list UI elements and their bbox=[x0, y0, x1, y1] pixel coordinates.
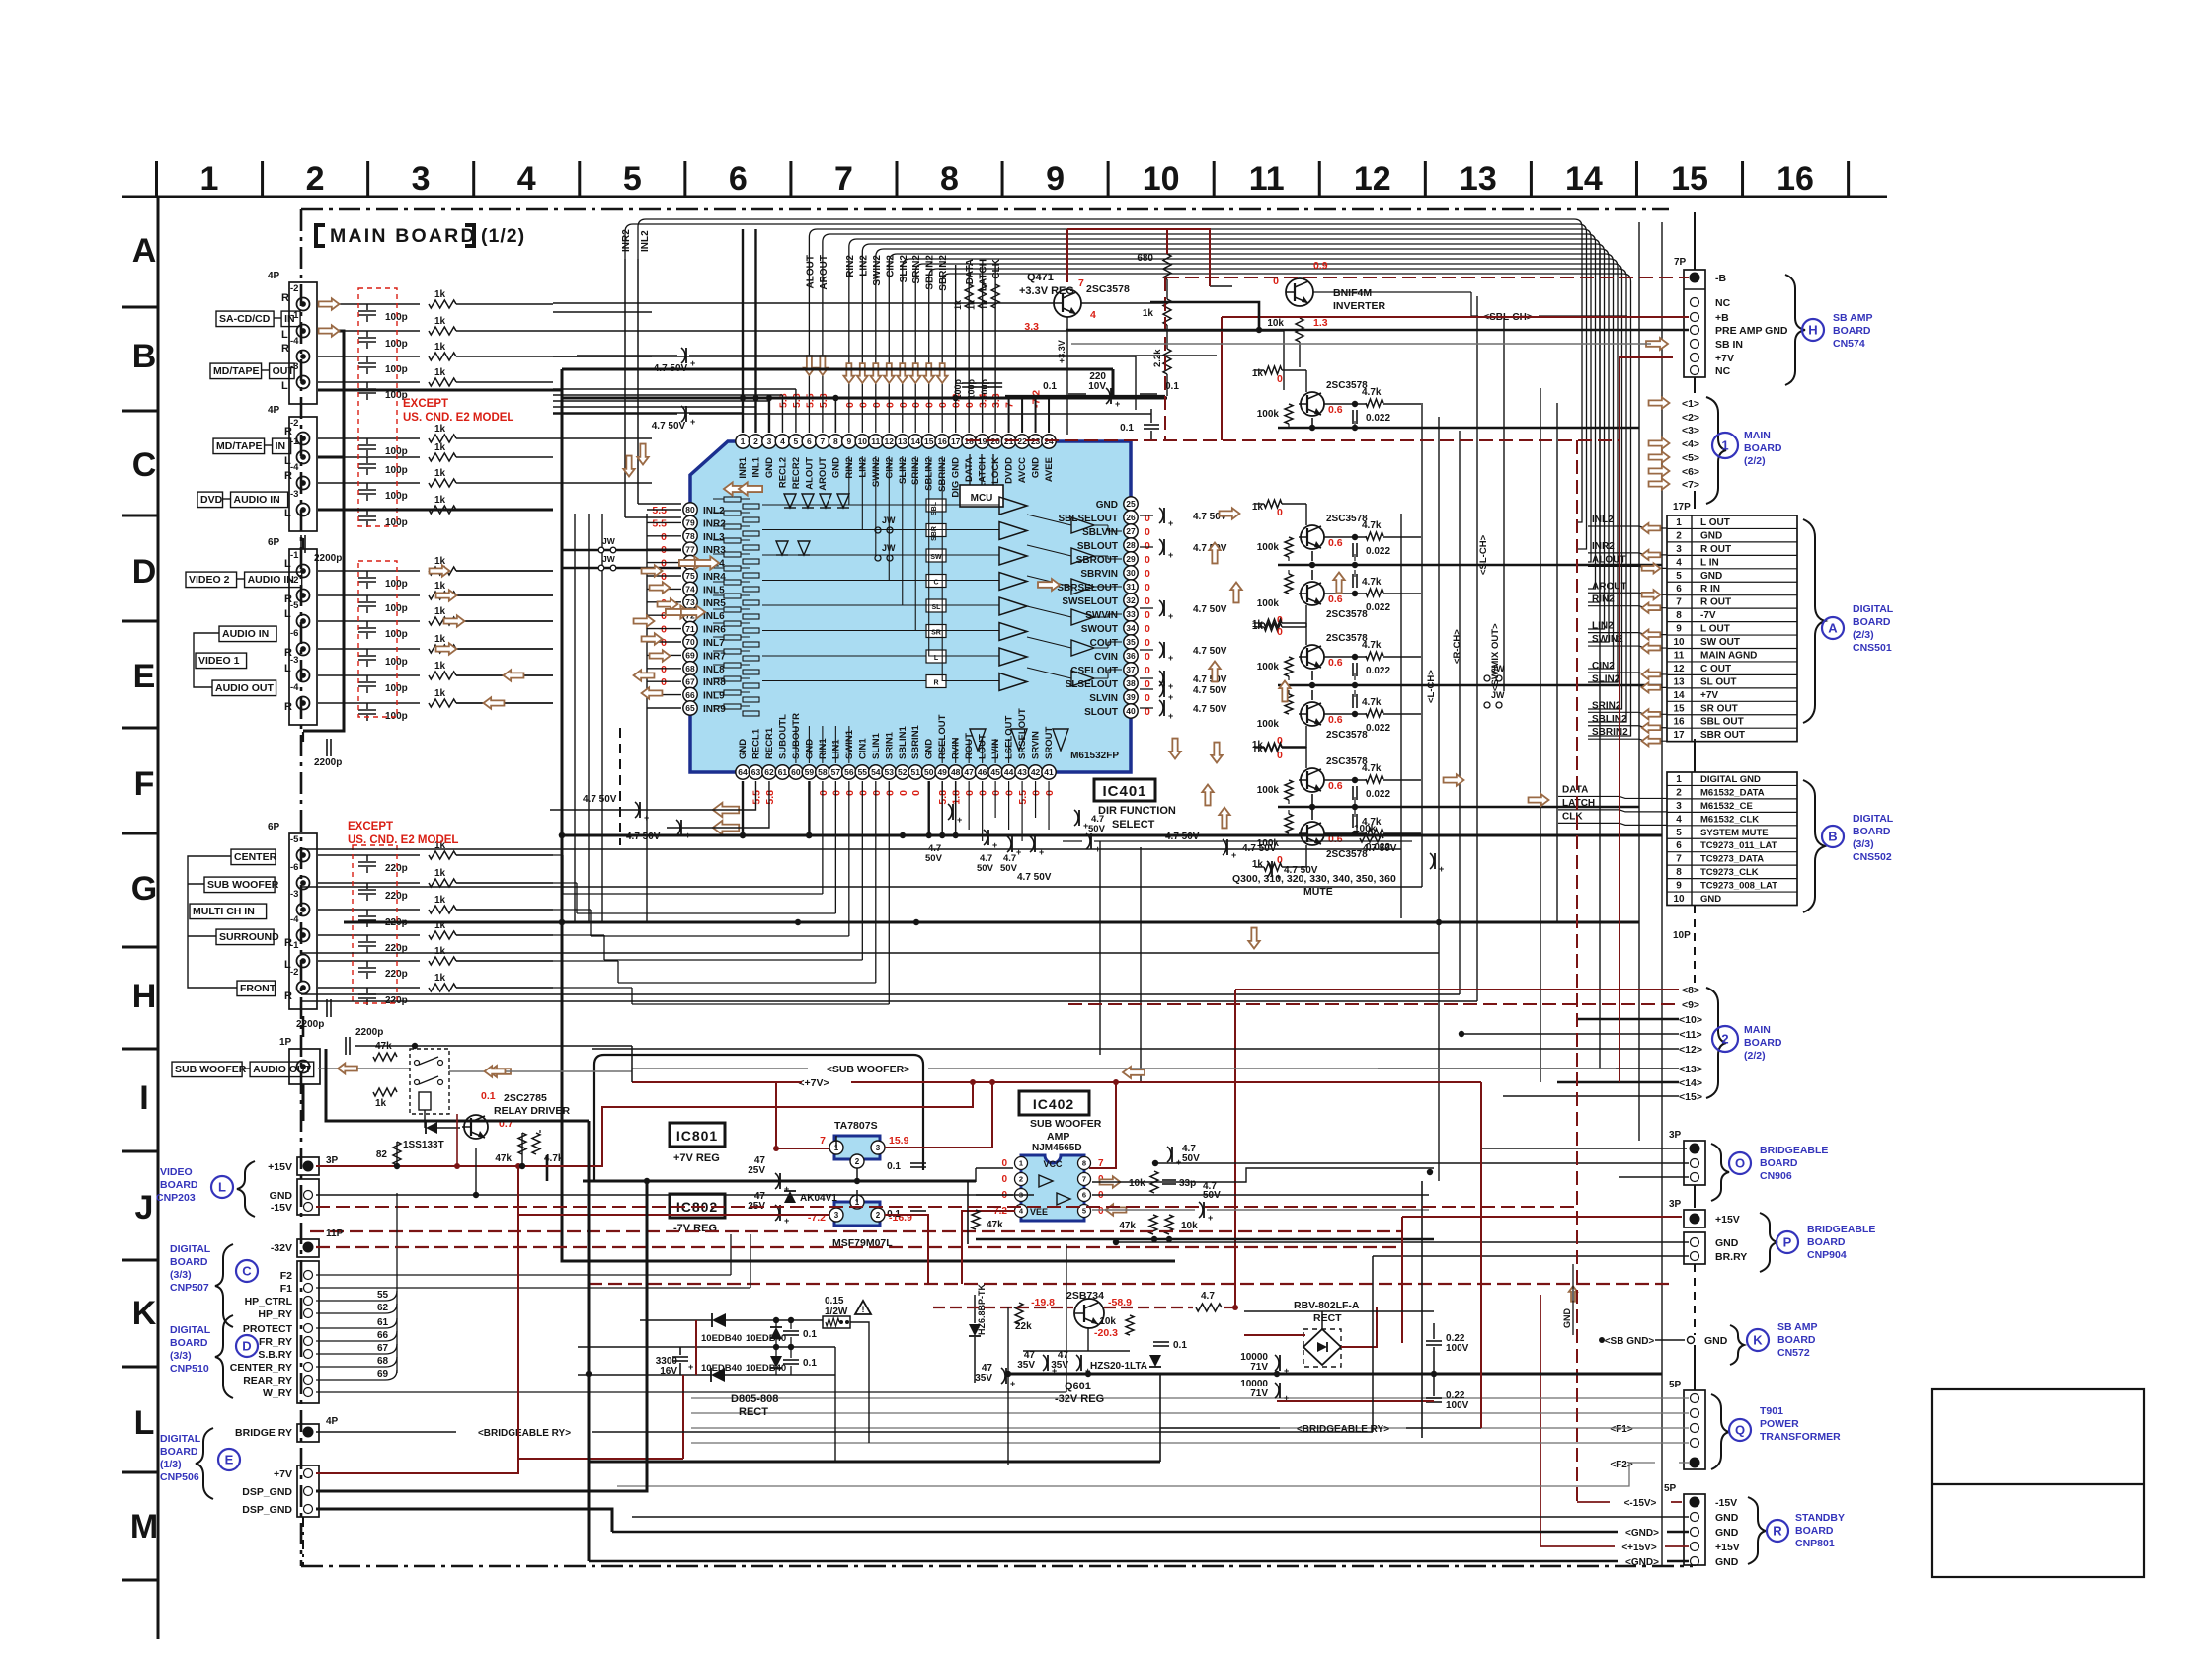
svg-text:0: 0 bbox=[1044, 790, 1056, 796]
capacitor 2200p bbox=[326, 739, 328, 756]
svg-text:100k: 100k bbox=[1257, 719, 1280, 730]
maroon -B dashed wire bbox=[1165, 277, 1689, 278]
svg-text:63: 63 bbox=[751, 767, 761, 777]
thick bus y1480 bbox=[589, 1461, 1160, 1464]
connector SUB WOOFER AUDIO OUT (1P) bbox=[289, 1049, 320, 1084]
pins 17-20 risers DATA LATCH CLK bbox=[968, 265, 970, 433]
jumper JW bbox=[875, 527, 881, 533]
pin 10 LIN2 bbox=[855, 435, 869, 448]
resistor 4.7k bbox=[1366, 775, 1383, 783]
label FRONT bbox=[237, 981, 276, 996]
resistor 1k bbox=[373, 1088, 397, 1096]
RCA jack pin bbox=[297, 615, 310, 628]
pin 31 SBRSELOUT bbox=[1124, 580, 1138, 594]
table DIGITAL BOARD (3/3) CNS502 10P bbox=[1667, 772, 1797, 906]
svg-text:100k: 100k bbox=[1257, 542, 1280, 553]
svg-text:5.8: 5.8 bbox=[764, 790, 776, 805]
svg-text:R: R bbox=[933, 680, 938, 687]
svg-text:68: 68 bbox=[685, 664, 695, 673]
svg-text:BR.RY: BR.RY bbox=[1715, 1251, 1747, 1263]
svg-text:22k: 22k bbox=[1015, 1321, 1032, 1332]
pin 38 SLSELOUT bbox=[1124, 676, 1138, 690]
svg-text:100V: 100V bbox=[1446, 1343, 1469, 1354]
svg-text:-32V: -32V bbox=[271, 1242, 292, 1254]
svg-text:5: 5 bbox=[623, 160, 642, 198]
svg-text:<SUB WOOFER>: <SUB WOOFER> bbox=[827, 1064, 910, 1075]
svg-text:12: 12 bbox=[1673, 664, 1685, 674]
svg-text:50V: 50V bbox=[1088, 824, 1106, 834]
pin 11 SWIN2 bbox=[869, 435, 883, 448]
svg-text:CSELOUT: CSELOUT bbox=[1070, 666, 1118, 676]
resistor 100k bbox=[1360, 834, 1383, 842]
capacitor 4.7 50V bbox=[681, 406, 685, 422]
svg-text:0: 0 bbox=[661, 531, 667, 543]
connector group SA-CD/CD + MD/TAPE OUT (4P) bbox=[289, 282, 317, 404]
pin 64 GND bbox=[736, 765, 750, 779]
svg-text:25V: 25V bbox=[748, 1165, 765, 1176]
svg-text:3: 3 bbox=[876, 1144, 881, 1152]
svg-text:-5: -5 bbox=[290, 834, 299, 845]
RCA jack pin bbox=[297, 955, 310, 968]
svg-text:I: I bbox=[139, 1079, 148, 1117]
svg-text:SBRIN2: SBRIN2 bbox=[1592, 727, 1628, 738]
capacitor 100p bbox=[318, 702, 420, 704]
svg-text:FR_RY: FR_RY bbox=[259, 1336, 292, 1348]
svg-text:2: 2 bbox=[306, 160, 325, 198]
svg-text:GND: GND bbox=[1704, 1335, 1728, 1347]
main board dash-dot outline bbox=[301, 208, 1669, 211]
svg-text:47k: 47k bbox=[495, 1153, 512, 1164]
svg-text:-15V: -15V bbox=[1715, 1497, 1737, 1509]
capacitor 4.7 50V bbox=[1159, 508, 1163, 523]
capacitor 0.1 bbox=[1153, 1341, 1169, 1343]
svg-text:SB AMP: SB AMP bbox=[1777, 1321, 1817, 1333]
svg-text:0: 0 bbox=[964, 790, 976, 796]
svg-text:1k: 1k bbox=[434, 316, 446, 327]
capacitor 100p bbox=[318, 356, 420, 357]
svg-text:0: 0 bbox=[871, 402, 883, 408]
capacitor 100p bbox=[962, 382, 976, 384]
svg-text:CENTER: CENTER bbox=[234, 851, 277, 863]
svg-text:16: 16 bbox=[1777, 160, 1814, 198]
resistor 100k bbox=[1285, 657, 1293, 676]
svg-text:DIR FUNCTION: DIR FUNCTION bbox=[1098, 805, 1176, 817]
svg-text:10k: 10k bbox=[1181, 1221, 1198, 1231]
svg-text:37: 37 bbox=[1126, 665, 1136, 674]
svg-text:IN: IN bbox=[276, 440, 286, 452]
svg-text:0: 0 bbox=[830, 790, 842, 796]
svg-text:CNP801: CNP801 bbox=[1795, 1538, 1835, 1549]
svg-text:F1: F1 bbox=[280, 1283, 292, 1295]
svg-text:3P: 3P bbox=[1669, 1130, 1682, 1141]
svg-text:0: 0 bbox=[1145, 540, 1150, 552]
wire net CIN2 bbox=[889, 254, 1613, 669]
pin 45 LVIN bbox=[988, 765, 1002, 779]
down arrows below IC bbox=[1169, 739, 1180, 759]
signal arrows into pins 9-16 bbox=[843, 363, 854, 383]
diode HZS20-1LTA bbox=[1149, 1355, 1161, 1367]
svg-text:71: 71 bbox=[685, 624, 695, 634]
svg-text:80: 80 bbox=[685, 505, 695, 515]
resistor 1k bbox=[429, 378, 456, 386]
svg-text:+7V: +7V bbox=[1715, 353, 1734, 364]
svg-text:+: + bbox=[1168, 653, 1173, 663]
svg-text:20: 20 bbox=[990, 436, 1000, 446]
regulator MSF79M07L bbox=[834, 1202, 880, 1226]
svg-text:24: 24 bbox=[1044, 436, 1054, 446]
svg-text:R: R bbox=[284, 647, 292, 659]
resistor 1k bbox=[429, 592, 456, 599]
svg-text:0.1: 0.1 bbox=[481, 1090, 496, 1102]
svg-text:11: 11 bbox=[1249, 160, 1285, 198]
svg-text:10: 10 bbox=[1673, 894, 1685, 905]
svg-text:R: R bbox=[284, 426, 292, 437]
capacitor 4.7 50V bbox=[1007, 836, 1011, 852]
svg-text:H: H bbox=[132, 978, 157, 1015]
svg-text:R: R bbox=[281, 292, 289, 304]
svg-text:CNP507: CNP507 bbox=[170, 1282, 209, 1294]
svg-text:+: + bbox=[1276, 872, 1281, 882]
zener HZ6.8BP-TK bbox=[969, 1324, 981, 1336]
svg-text:GND: GND bbox=[1715, 1512, 1739, 1524]
svg-text:INR7: INR7 bbox=[703, 651, 726, 662]
maroon +15V standby feed bbox=[1540, 1295, 1541, 1546]
resistor 1k base bbox=[1264, 863, 1282, 871]
SB IN wire bbox=[1071, 343, 1651, 345]
capacitor 220p bbox=[318, 960, 420, 962]
svg-text:<+7V>: <+7V> bbox=[798, 1077, 829, 1089]
capacitor 100p bbox=[318, 437, 420, 439]
svg-text:10P: 10P bbox=[1673, 930, 1691, 941]
svg-text:62: 62 bbox=[764, 767, 774, 777]
svg-text:1: 1 bbox=[1676, 517, 1682, 528]
resistor 1k base bbox=[1264, 366, 1282, 374]
RCA jack pin bbox=[297, 351, 310, 363]
svg-text:0: 0 bbox=[1001, 1174, 1007, 1185]
svg-text:INR8: INR8 bbox=[703, 677, 726, 688]
wire loop relay to IC402 bbox=[594, 1055, 923, 1181]
svg-text:3: 3 bbox=[1676, 544, 1682, 555]
svg-text:D: D bbox=[242, 1339, 251, 1354]
svg-text:BOARD: BOARD bbox=[1777, 1334, 1816, 1346]
svg-text:GND: GND bbox=[1700, 571, 1722, 582]
wire net SWIN2 bbox=[876, 249, 1609, 642]
RCA jack pin bbox=[297, 643, 310, 656]
svg-text:R OUT: R OUT bbox=[1700, 544, 1731, 555]
resistor 1k base bbox=[1264, 743, 1282, 751]
svg-text:<11>: <11> bbox=[1679, 1029, 1701, 1041]
transistor 2SC2785 RELAY DRIVER bbox=[464, 1115, 488, 1139]
RCA jack pin bbox=[297, 504, 310, 516]
svg-text:J: J bbox=[135, 1189, 154, 1227]
svg-text:VCC: VCC bbox=[1043, 1159, 1063, 1169]
power wires bottom-right bbox=[1244, 1334, 1305, 1336]
svg-text:(3/3): (3/3) bbox=[170, 1350, 192, 1362]
GND wire bbox=[316, 1194, 1034, 1196]
diode AK04V1 bbox=[784, 1191, 796, 1203]
svg-text:0.6: 0.6 bbox=[1328, 404, 1343, 416]
svg-text:LATCH: LATCH bbox=[978, 457, 988, 489]
svg-text:33: 33 bbox=[1126, 609, 1136, 619]
svg-text:1k: 1k bbox=[434, 556, 446, 567]
svg-text:BOARD: BOARD bbox=[160, 1179, 198, 1191]
svg-text:SWSELOUT: SWSELOUT bbox=[1062, 596, 1118, 607]
svg-text:4: 4 bbox=[1090, 309, 1096, 321]
resistor 10k bbox=[1150, 1171, 1158, 1193]
svg-text:R: R bbox=[1773, 1524, 1782, 1539]
svg-text:65: 65 bbox=[685, 703, 695, 713]
svg-text:<6>: <6> bbox=[1682, 466, 1699, 478]
svg-text:40: 40 bbox=[1126, 706, 1136, 716]
svg-text:35: 35 bbox=[1126, 637, 1136, 647]
svg-text:B: B bbox=[132, 338, 157, 375]
svg-text:+: + bbox=[690, 358, 695, 368]
capacitor 4.7 50V bbox=[1159, 600, 1163, 616]
wire thick horizontal y934 bbox=[344, 921, 1639, 924]
svg-text:68: 68 bbox=[377, 1356, 389, 1367]
svg-text:L: L bbox=[284, 608, 291, 620]
svg-text:100p: 100p bbox=[967, 378, 977, 399]
capacitor 220p bbox=[318, 882, 420, 884]
svg-text:69: 69 bbox=[377, 1369, 389, 1380]
svg-text:61: 61 bbox=[778, 767, 788, 777]
capacitor 0.1 bbox=[783, 1359, 799, 1361]
svg-text:L: L bbox=[284, 508, 291, 519]
label VIDEO 1 bbox=[196, 653, 247, 669]
resistor 47k bbox=[1149, 1215, 1157, 1234]
svg-text:K: K bbox=[1753, 1333, 1763, 1348]
svg-text:GND: GND bbox=[924, 739, 935, 759]
svg-text:39: 39 bbox=[1126, 692, 1136, 702]
svg-text:MAIN BOARD: MAIN BOARD bbox=[330, 225, 477, 247]
svg-text:29: 29 bbox=[1126, 554, 1136, 564]
svg-text:RECR1: RECR1 bbox=[764, 727, 775, 759]
svg-text:74: 74 bbox=[685, 585, 695, 594]
svg-text:34: 34 bbox=[1126, 623, 1136, 633]
pin 65 INR9 bbox=[683, 701, 697, 715]
svg-text:0.6: 0.6 bbox=[1328, 714, 1343, 726]
RCA jack pin bbox=[297, 877, 310, 890]
svg-text:R: R bbox=[281, 343, 289, 355]
arrow SB IN bbox=[1646, 338, 1668, 350]
svg-text:RECT: RECT bbox=[1313, 1312, 1342, 1324]
transistor BNIF4M INVERTER bbox=[1286, 278, 1313, 306]
capacitor 100p bbox=[318, 303, 420, 305]
svg-text:BRIDGEABLE: BRIDGEABLE bbox=[1760, 1145, 1828, 1156]
wire net SLIN2 bbox=[903, 259, 1618, 682]
svg-text:0.6: 0.6 bbox=[1328, 657, 1343, 669]
svg-text:7: 7 bbox=[821, 436, 826, 446]
svg-text:SWIN2: SWIN2 bbox=[872, 255, 883, 286]
svg-text:IC402: IC402 bbox=[1033, 1096, 1074, 1112]
svg-text:2: 2 bbox=[1721, 1032, 1728, 1047]
chevron 8-15 feed wires bbox=[1235, 989, 1679, 990]
svg-text:MAIN AGND: MAIN AGND bbox=[1700, 650, 1757, 661]
svg-text:BOARD: BOARD bbox=[1744, 442, 1782, 454]
capacitor 2200p bbox=[345, 1037, 347, 1055]
svg-text:INR5: INR5 bbox=[703, 598, 726, 609]
pin 58 RIN1 bbox=[816, 765, 829, 779]
svg-text:19: 19 bbox=[978, 436, 987, 446]
wires C connector with pin numbers bbox=[316, 1300, 369, 1302]
svg-text:MCU: MCU bbox=[971, 493, 993, 504]
resistor 1k bbox=[429, 453, 456, 461]
IC401 designator box bbox=[1094, 779, 1155, 801]
svg-text:9: 9 bbox=[846, 436, 851, 446]
svg-text:D805-808: D805-808 bbox=[731, 1393, 778, 1405]
svg-text:4.7 50V: 4.7 50V bbox=[583, 794, 617, 805]
svg-text:18: 18 bbox=[964, 436, 974, 446]
svg-text:EXCEPT: EXCEPT bbox=[403, 398, 448, 410]
pin 47 ROUT bbox=[962, 765, 976, 779]
svg-text:0.1: 0.1 bbox=[887, 1161, 901, 1172]
svg-text:D: D bbox=[132, 553, 157, 591]
svg-text:INR2: INR2 bbox=[1592, 541, 1615, 552]
pin 78 INL3 bbox=[683, 529, 697, 543]
svg-text:1.8: 1.8 bbox=[951, 790, 963, 805]
svg-text:SLIN2: SLIN2 bbox=[1592, 673, 1620, 684]
svg-text:0.022: 0.022 bbox=[1366, 546, 1390, 557]
svg-text:+: + bbox=[1231, 850, 1236, 860]
pin 61 SUBOUTL bbox=[775, 765, 789, 779]
svg-text:0: 0 bbox=[1145, 526, 1150, 538]
pin 6 ALOUT bbox=[802, 435, 816, 448]
svg-text:R: R bbox=[284, 937, 292, 949]
svg-text:DVD: DVD bbox=[200, 494, 223, 506]
pin 49 RSELOUT bbox=[935, 765, 949, 779]
svg-text:-3: -3 bbox=[290, 489, 298, 500]
svg-text:15: 15 bbox=[1671, 160, 1708, 198]
svg-text:1k: 1k bbox=[434, 289, 446, 300]
svg-text:+: + bbox=[957, 815, 962, 825]
svg-text:GND: GND bbox=[830, 457, 841, 478]
svg-text:5P: 5P bbox=[1669, 1380, 1682, 1390]
svg-text:21: 21 bbox=[1004, 436, 1014, 446]
wire net ALOUT bbox=[809, 229, 1591, 562]
resistor 1k bbox=[429, 984, 456, 991]
svg-text:0.1: 0.1 bbox=[1043, 381, 1057, 392]
resistor 4.7 bbox=[1196, 1304, 1222, 1311]
wire net RIN2 bbox=[849, 239, 1600, 602]
svg-text:2: 2 bbox=[876, 1211, 881, 1220]
RCA jack pin bbox=[297, 697, 310, 710]
capacitor 33p bbox=[1162, 1179, 1176, 1181]
RCA jack pin bbox=[297, 376, 310, 389]
svg-text:56: 56 bbox=[844, 767, 854, 777]
svg-text:R: R bbox=[284, 594, 292, 605]
capacitor 100p bbox=[318, 594, 420, 596]
pin 46 LOUT bbox=[975, 765, 988, 779]
svg-text:6: 6 bbox=[807, 436, 812, 446]
svg-text:CN574: CN574 bbox=[1833, 338, 1865, 350]
pin 9 RIN2 bbox=[842, 435, 856, 448]
svg-text:B: B bbox=[1828, 830, 1837, 844]
svg-text:5.8: 5.8 bbox=[791, 393, 803, 408]
svg-text:Q: Q bbox=[1735, 1423, 1745, 1438]
svg-text:7: 7 bbox=[820, 1135, 826, 1147]
svg-text:<15>: <15> bbox=[1679, 1091, 1702, 1103]
svg-text:9: 9 bbox=[1676, 624, 1682, 635]
IC401 input diodes bbox=[784, 494, 796, 508]
diodes 10EDB40 bbox=[712, 1313, 726, 1327]
svg-text:RBV-802LF-A: RBV-802LF-A bbox=[1294, 1300, 1360, 1311]
svg-text:1: 1 bbox=[200, 160, 219, 198]
wire Q471 base long bbox=[553, 302, 1054, 304]
svg-text:+: + bbox=[1168, 692, 1173, 702]
svg-text:2: 2 bbox=[855, 1157, 860, 1166]
svg-text:4.7k: 4.7k bbox=[1362, 640, 1382, 651]
svg-text:+: + bbox=[688, 1362, 693, 1372]
svg-text:DIGITAL: DIGITAL bbox=[160, 1433, 201, 1445]
svg-text:0: 0 bbox=[937, 402, 949, 408]
svg-text:11: 11 bbox=[1674, 650, 1685, 661]
svg-text:SLSELOUT: SLSELOUT bbox=[1066, 679, 1118, 690]
pin 68 INL8 bbox=[683, 662, 697, 675]
svg-text:L IN: L IN bbox=[1700, 557, 1719, 568]
resistor 10k bbox=[1165, 1215, 1173, 1234]
svg-text:1k: 1k bbox=[967, 299, 977, 310]
capacitor 100p bbox=[318, 674, 420, 676]
svg-text:73: 73 bbox=[685, 597, 695, 607]
svg-text:-3: -3 bbox=[290, 889, 298, 900]
top pins 1-5 wires to left bbox=[742, 413, 744, 433]
svg-text:58: 58 bbox=[818, 767, 828, 777]
svg-text:INR3: INR3 bbox=[703, 545, 726, 556]
svg-text:DIGITAL GND: DIGITAL GND bbox=[1700, 774, 1761, 785]
resistor 100k bbox=[1285, 814, 1293, 833]
svg-text:4.7 50V: 4.7 50V bbox=[1284, 865, 1318, 876]
svg-text:BOARD: BOARD bbox=[1744, 1037, 1782, 1049]
capacitor 220p bbox=[318, 854, 420, 856]
bus junction dots bbox=[559, 832, 565, 838]
pin 33 SWVIN bbox=[1124, 607, 1138, 621]
pin 67 INR8 bbox=[683, 674, 697, 688]
svg-text:SELECT: SELECT bbox=[1112, 819, 1155, 831]
relay circuit SUB WOOFER out bbox=[318, 1068, 410, 1069]
svg-text:ALOUT: ALOUT bbox=[804, 457, 815, 490]
svg-text:GND: GND bbox=[1031, 457, 1042, 478]
svg-text:INR6: INR6 bbox=[703, 625, 726, 636]
svg-text:0.6: 0.6 bbox=[1328, 780, 1343, 792]
svg-text:10EDB40: 10EDB40 bbox=[701, 1333, 742, 1344]
wire vertical bundle bbox=[574, 514, 576, 923]
svg-text:NC: NC bbox=[1715, 297, 1731, 309]
svg-text:3: 3 bbox=[834, 1211, 839, 1220]
svg-text:0: 0 bbox=[1031, 790, 1043, 796]
svg-text:1k: 1k bbox=[434, 495, 446, 506]
svg-text:17: 17 bbox=[1673, 730, 1685, 741]
wire net INL2 bbox=[638, 219, 1582, 522]
svg-text:16: 16 bbox=[937, 436, 947, 446]
svg-text:L OUT: L OUT bbox=[1700, 517, 1730, 528]
svg-text:DIGITAL: DIGITAL bbox=[1853, 603, 1894, 615]
svg-text:POWER: POWER bbox=[1760, 1418, 1799, 1430]
svg-text:0: 0 bbox=[1145, 692, 1150, 704]
relay switch dashed box bbox=[410, 1049, 449, 1114]
IC401 channel buffers bbox=[926, 499, 946, 512]
svg-text:<8>: <8> bbox=[1682, 985, 1699, 996]
transistor 2SC3578 mute bbox=[1301, 525, 1324, 549]
RCA jack pin bbox=[297, 433, 310, 445]
resistor 4.7k bbox=[532, 1133, 540, 1154]
diode 1SS133T bbox=[426, 1122, 437, 1134]
svg-text:4P: 4P bbox=[268, 405, 280, 416]
svg-text:4.7 50V: 4.7 50V bbox=[1193, 604, 1227, 615]
svg-text:TC9273_008_LAT: TC9273_008_LAT bbox=[1700, 881, 1777, 892]
svg-text:61: 61 bbox=[377, 1317, 389, 1328]
pin 25 GND bbox=[1124, 497, 1138, 511]
svg-text:+15V: +15V bbox=[1715, 1542, 1740, 1553]
